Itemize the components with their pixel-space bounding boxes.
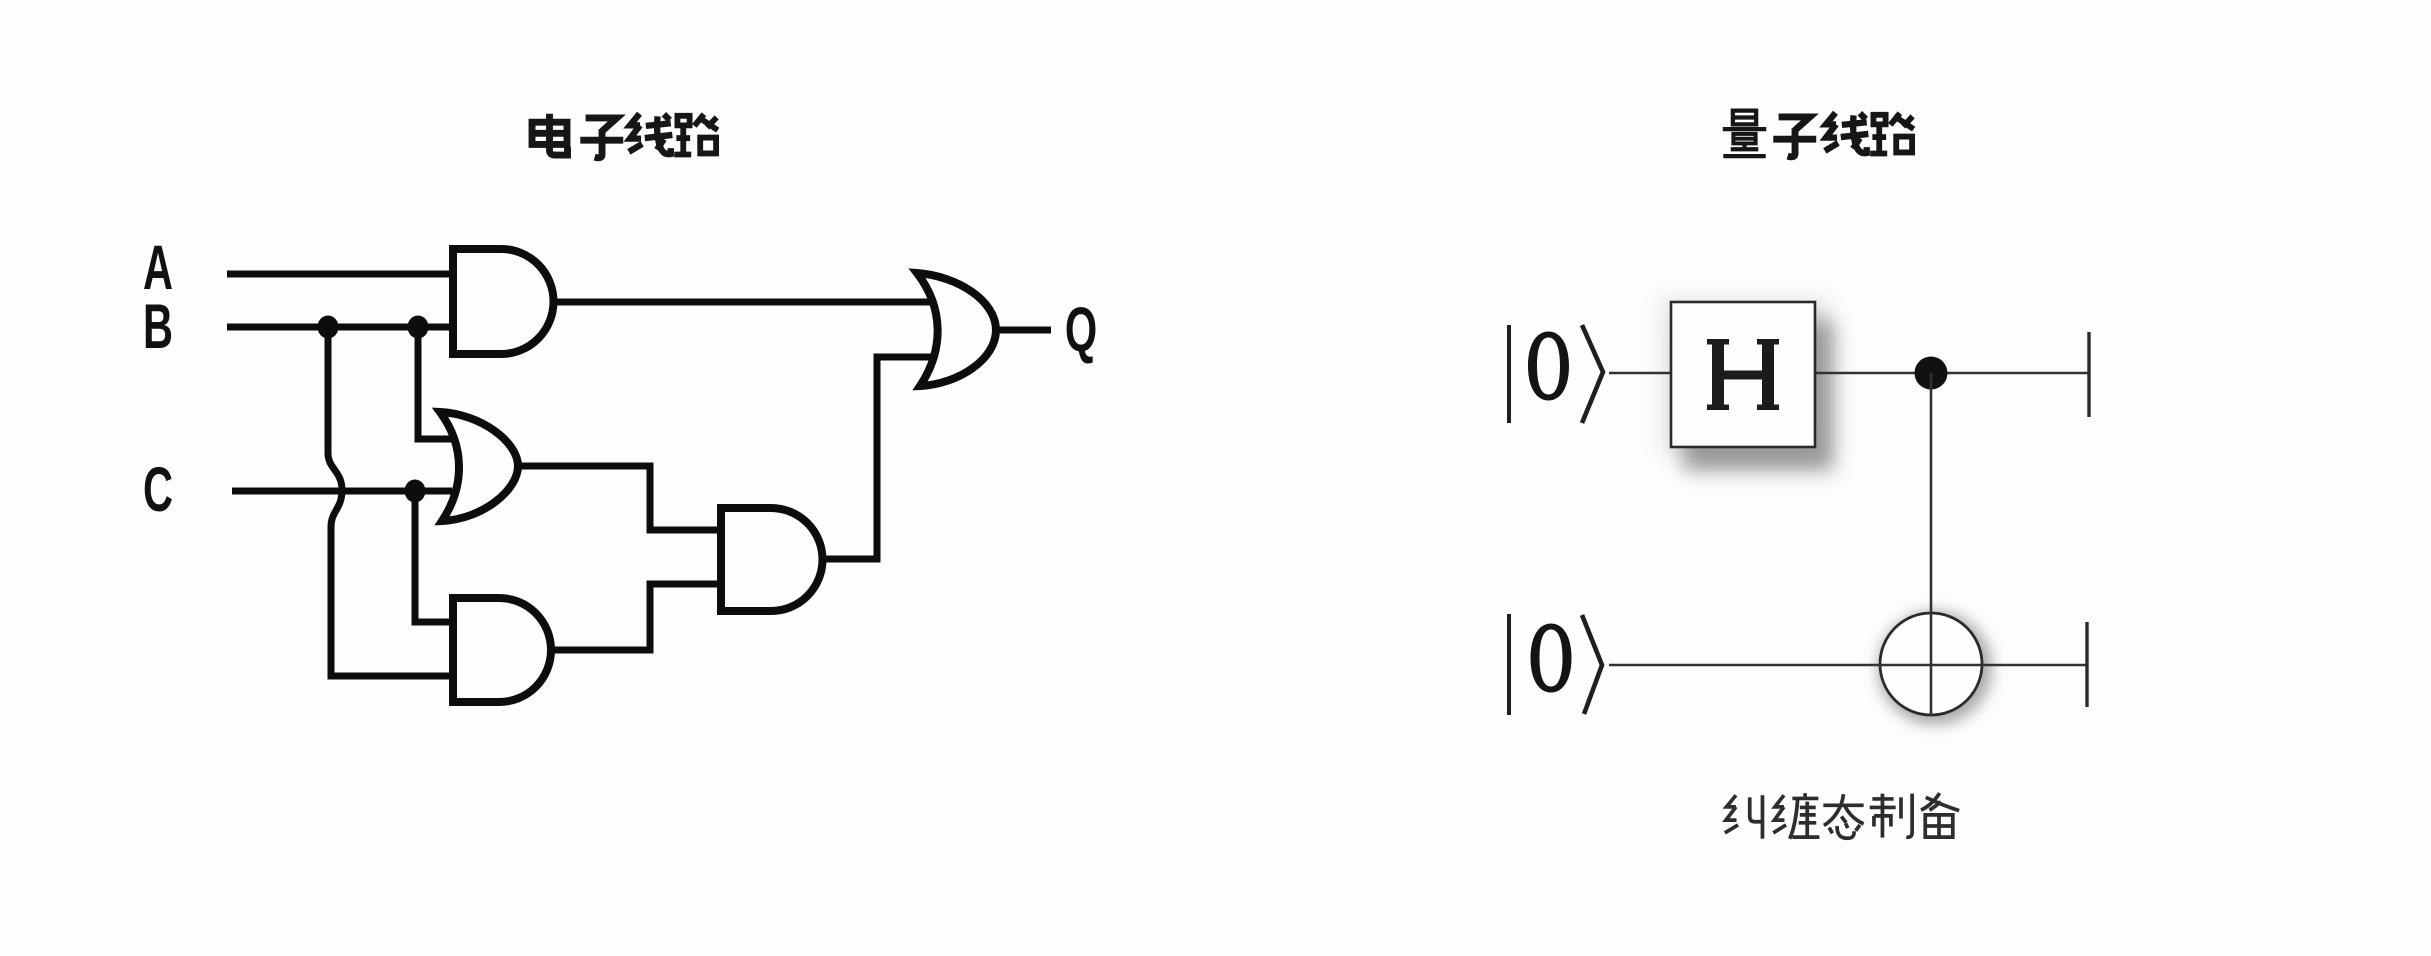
svg-text:B: B (143, 293, 173, 363)
svg-text:C: C (143, 456, 173, 526)
svg-text:Q: Q (1065, 296, 1097, 366)
